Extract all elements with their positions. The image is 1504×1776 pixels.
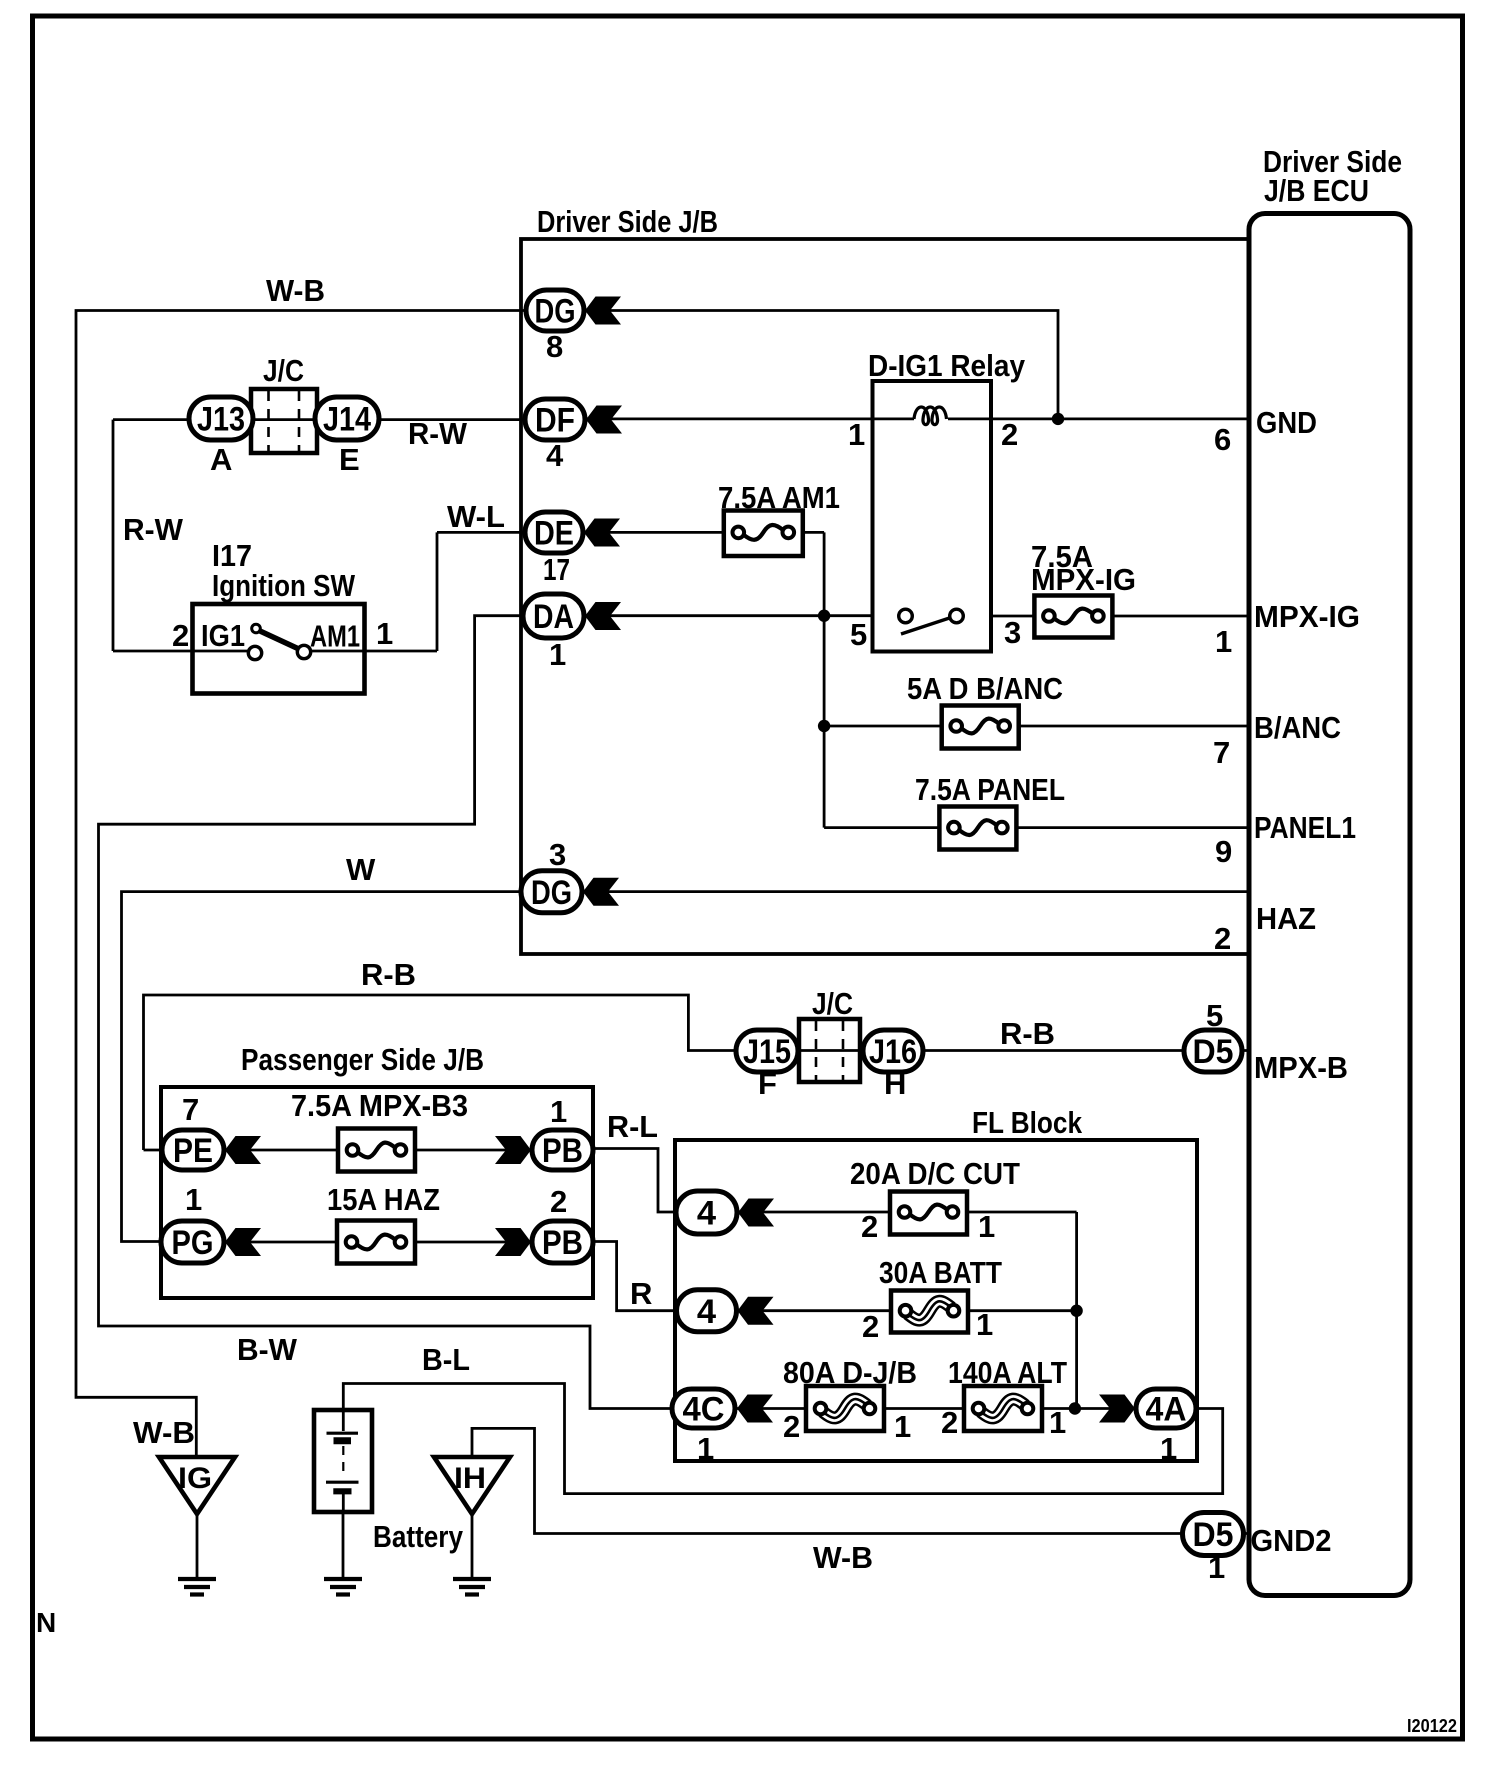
svg-text:7: 7 xyxy=(1213,735,1230,770)
wire PE to fuse MPX-B3 to PB1 xyxy=(224,1149,531,1152)
svg-text:5: 5 xyxy=(850,617,867,652)
svg-text:2: 2 xyxy=(861,1209,878,1244)
fuse 30A BATT xyxy=(891,1291,968,1333)
battery symbol xyxy=(314,1410,372,1512)
wire ignition AM1 terminal to W-L corner xyxy=(310,650,437,653)
wire R-B from PE rail to J15 xyxy=(144,995,737,1150)
fuse 7.5A MPX-IG xyxy=(1034,596,1112,638)
FL Block box xyxy=(675,1140,1197,1461)
fuse 7.5A PANEL xyxy=(939,807,1016,850)
svg-text:1: 1 xyxy=(1215,624,1232,659)
wire IH to D5 GND2 xyxy=(472,1428,1249,1533)
wire R-W from J13 through J14 to DF xyxy=(113,418,525,421)
arrow into PB upper xyxy=(495,1136,531,1164)
svg-text:4: 4 xyxy=(697,1293,716,1331)
svg-text:IG: IG xyxy=(178,1462,212,1495)
junction node ALT rail xyxy=(1069,1402,1081,1414)
svg-text:2: 2 xyxy=(783,1409,800,1444)
svg-text:IH: IH xyxy=(454,1462,486,1495)
wire W from DG lower to passenger PG rail xyxy=(122,892,523,1242)
arrow into DE xyxy=(584,519,620,547)
svg-text:FL Block: FL Block xyxy=(972,1105,1083,1140)
ground symbol under IH xyxy=(453,1579,491,1595)
arrow into DG xyxy=(585,297,621,325)
ignition switch lever and contacts xyxy=(248,624,310,660)
svg-text:W-B: W-B xyxy=(266,273,325,308)
wire PG to fuse HAZ to PB2 xyxy=(224,1241,531,1244)
svg-text:W-B: W-B xyxy=(813,1540,873,1575)
ground symbol under IG xyxy=(178,1579,216,1595)
svg-text:GND: GND xyxy=(1256,405,1317,440)
svg-text:PB: PB xyxy=(542,1132,583,1170)
svg-text:J13: J13 xyxy=(197,401,245,439)
connector DF pin 4 xyxy=(525,399,585,440)
svg-text:2: 2 xyxy=(941,1405,958,1440)
connector J13 pin A xyxy=(189,397,253,440)
wire IG triangle to ground xyxy=(196,1514,199,1578)
svg-text:D5: D5 xyxy=(1193,1516,1234,1554)
wire B-L from 4A to battery positive xyxy=(343,1384,1222,1494)
wire W-L from ignition AM1 up to DE xyxy=(437,532,525,651)
svg-text:PE: PE xyxy=(173,1132,213,1170)
svg-text:R-W: R-W xyxy=(123,512,184,547)
connector J15 pin F xyxy=(736,1030,798,1072)
svg-text:PG: PG xyxy=(172,1224,214,1262)
relay coil of D-IG1 xyxy=(914,407,947,425)
wire J16 to D5 MPX-B xyxy=(798,1049,1249,1052)
svg-text:R-W: R-W xyxy=(408,416,468,451)
svg-text:4A: 4A xyxy=(1146,1391,1187,1429)
svg-text:2: 2 xyxy=(1001,417,1018,452)
svg-text:5A D B/ANC: 5A D B/ANC xyxy=(907,671,1063,706)
svg-text:D-IG1 Relay: D-IG1 Relay xyxy=(868,348,1026,383)
ground triangle IG xyxy=(159,1457,235,1514)
arrow into DG lower xyxy=(583,878,619,906)
svg-text:B/ANC: B/ANC xyxy=(1254,710,1341,745)
svg-text:W: W xyxy=(346,852,376,887)
svg-text:1: 1 xyxy=(848,417,865,452)
connector PB upper pin 1 xyxy=(532,1130,593,1170)
svg-text:30A BATT: 30A BATT xyxy=(879,1255,1002,1290)
fuse 15A HAZ xyxy=(337,1221,415,1264)
connector DG pin 8 xyxy=(526,290,584,331)
svg-text:B-W: B-W xyxy=(237,1332,298,1367)
Driver Side J/B block xyxy=(521,239,1249,954)
svg-text:W-L: W-L xyxy=(447,499,505,534)
wire relay coil pin 2 to ECU GND pin 6 xyxy=(948,417,1249,420)
connector DE pin 17 xyxy=(525,512,583,553)
svg-text:E: E xyxy=(339,442,360,477)
svg-text:9: 9 xyxy=(1215,834,1232,869)
connector PG pin 1 xyxy=(161,1221,224,1263)
connector PB lower pin 2 xyxy=(532,1221,593,1263)
junction node on B/ANC wire rail xyxy=(818,720,830,732)
wire from DG arrow to GND net junction xyxy=(584,311,1058,419)
fuse 5A D B/ANC xyxy=(942,706,1019,749)
svg-text:3: 3 xyxy=(549,837,566,872)
svg-text:20A D/C CUT: 20A D/C CUT xyxy=(850,1156,1020,1191)
svg-text:1: 1 xyxy=(549,637,566,672)
svg-text:GND2: GND2 xyxy=(1251,1523,1332,1558)
connector DG lower pin 3 xyxy=(521,871,582,913)
svg-text:6: 6 xyxy=(1214,422,1231,457)
wire R from PB2 to FL block pin 4 lower xyxy=(593,1242,679,1311)
svg-text:1: 1 xyxy=(1208,1550,1225,1585)
svg-text:J/C: J/C xyxy=(812,986,853,1021)
svg-text:1: 1 xyxy=(894,1409,911,1444)
wire DF to D-IG1 relay coil pin 1 xyxy=(586,417,914,420)
svg-text:DG: DG xyxy=(531,874,572,912)
junction node BATT rail xyxy=(1070,1305,1082,1317)
svg-text:DG: DG xyxy=(535,293,576,331)
arrow into 4 lower xyxy=(738,1297,774,1325)
svg-text:R-L: R-L xyxy=(607,1109,658,1144)
ground triangle IH xyxy=(434,1457,510,1514)
svg-text:A: A xyxy=(210,442,232,477)
svg-text:DE: DE xyxy=(534,515,574,553)
connector D5 MPX-B pin 5 xyxy=(1184,1030,1242,1072)
svg-text:AM1: AM1 xyxy=(310,619,360,654)
svg-text:80A D-J/B: 80A D-J/B xyxy=(783,1355,917,1390)
fuse 7.5A MPX-B3 xyxy=(338,1129,415,1172)
svg-text:1: 1 xyxy=(1049,1405,1066,1440)
svg-text:IG1: IG1 xyxy=(201,618,245,653)
svg-text:3: 3 xyxy=(1004,615,1021,650)
arrow into 4C xyxy=(737,1395,773,1423)
svg-text:I20122: I20122 xyxy=(1407,1715,1457,1736)
svg-text:DF: DF xyxy=(535,402,575,440)
svg-text:4: 4 xyxy=(546,438,564,473)
relay D-IG1 box xyxy=(873,381,992,652)
svg-text:Ignition SW: Ignition SW xyxy=(212,568,356,603)
connector DA pin 1 xyxy=(523,594,584,638)
svg-text:2: 2 xyxy=(1214,921,1231,956)
svg-text:J/C: J/C xyxy=(263,353,304,388)
svg-text:HAZ: HAZ xyxy=(1256,901,1316,936)
wire into ignition IG1 terminal xyxy=(113,650,249,653)
svg-text:W-B: W-B xyxy=(133,1415,195,1450)
svg-text:15A HAZ: 15A HAZ xyxy=(327,1182,440,1217)
svg-text:PANEL1: PANEL1 xyxy=(1254,810,1356,845)
svg-text:7: 7 xyxy=(182,1092,199,1127)
connector D5 GND2 pin 1 xyxy=(1183,1513,1244,1556)
svg-text:7.5A PANEL: 7.5A PANEL xyxy=(915,772,1065,807)
svg-text:DA: DA xyxy=(533,598,574,636)
arrow into PG xyxy=(225,1228,261,1256)
svg-text:5: 5 xyxy=(1206,998,1223,1033)
junction node on DA wire rail xyxy=(818,610,830,622)
wire rail to fuse D B/ANC to ECU pin 7 xyxy=(824,725,1249,728)
svg-text:2: 2 xyxy=(862,1309,879,1344)
wire DE to fuse AM1 and down-rail xyxy=(584,532,824,827)
svg-text:1: 1 xyxy=(376,616,393,651)
svg-text:1: 1 xyxy=(550,1094,567,1129)
svg-text:140A ALT: 140A ALT xyxy=(948,1355,1067,1390)
connector 4A pin 1 xyxy=(1136,1389,1196,1429)
connector J14 pin E xyxy=(315,397,379,440)
ground symbol under battery xyxy=(324,1579,362,1595)
svg-text:17: 17 xyxy=(543,552,570,587)
svg-text:7.5A AM1: 7.5A AM1 xyxy=(718,480,840,515)
wire R-W vertical J13 to ignition switch xyxy=(112,420,115,651)
relay switch contacts of D-IG1 xyxy=(899,609,964,634)
svg-text:R-B: R-B xyxy=(1000,1016,1055,1051)
wire 4C through fuses D-J/B and ALT to 4A xyxy=(736,1407,1135,1410)
svg-text:1: 1 xyxy=(976,1307,993,1342)
wire IH triangle to ground xyxy=(471,1514,474,1578)
arrow into PB lower xyxy=(495,1228,531,1256)
svg-text:MPX-IG: MPX-IG xyxy=(1031,562,1136,597)
arrow into 4A xyxy=(1099,1395,1135,1423)
wire DA left to lower-left rail (B-W run) xyxy=(99,616,673,1409)
connector PE pin 7 xyxy=(162,1130,224,1170)
fuse 80A D-J/B xyxy=(806,1386,884,1431)
svg-text:1: 1 xyxy=(978,1209,995,1244)
wire relay pin 3 to fuse MPX-IG to ECU pin 1 xyxy=(991,615,1249,618)
svg-text:2: 2 xyxy=(172,618,189,653)
connector 4 upper xyxy=(676,1191,737,1234)
svg-text:Battery: Battery xyxy=(373,1519,464,1554)
fuse 140A ALT xyxy=(964,1386,1042,1431)
wire DA arrow to relay switch pin 5 xyxy=(585,614,873,617)
svg-text:PB: PB xyxy=(542,1224,583,1262)
arrow into 4 upper xyxy=(738,1199,774,1227)
svg-text:4C: 4C xyxy=(683,1391,725,1429)
wire W-B from DG connector to left rail xyxy=(76,311,527,1458)
svg-text:7.5A MPX-B3: 7.5A MPX-B3 xyxy=(291,1088,468,1123)
wire pin 4 upper to fuse D/C CUT to right rail xyxy=(737,1212,1077,1409)
junction connector J/C (upper) xyxy=(251,389,317,453)
svg-text:Driver Side J/B: Driver Side J/B xyxy=(537,204,718,239)
arrow into DA xyxy=(585,602,621,630)
svg-text:R: R xyxy=(630,1276,652,1311)
svg-text:Passenger Side J/B: Passenger Side J/B xyxy=(241,1042,484,1077)
svg-text:J14: J14 xyxy=(323,401,371,439)
svg-text:4: 4 xyxy=(697,1195,716,1233)
svg-text:8: 8 xyxy=(546,329,563,364)
svg-text:1: 1 xyxy=(697,1431,714,1466)
junction node on GND wire xyxy=(1052,413,1064,425)
svg-text:R-B: R-B xyxy=(361,957,416,992)
svg-text:J/B ECU: J/B ECU xyxy=(1264,173,1369,208)
wire battery negative to ground xyxy=(342,1512,345,1578)
connector 4 lower xyxy=(677,1290,737,1332)
arrow into DF xyxy=(586,406,622,434)
wire rail to fuse PANEL to ECU pin 9 xyxy=(824,826,1249,829)
svg-text:N: N xyxy=(36,1607,56,1638)
ignition switch I17 box xyxy=(193,604,365,694)
wire pin 4 lower to fuse BATT to right rail xyxy=(737,1309,1077,1312)
connector 4C pin 1 xyxy=(672,1389,735,1429)
svg-text:MPX-B: MPX-B xyxy=(1254,1050,1348,1085)
svg-text:B-L: B-L xyxy=(422,1342,470,1377)
svg-text:1: 1 xyxy=(1160,1431,1177,1466)
arrow into PE xyxy=(225,1136,261,1164)
svg-text:F: F xyxy=(758,1066,777,1101)
svg-text:2: 2 xyxy=(550,1184,567,1219)
Passenger Side J/B block xyxy=(161,1087,593,1298)
wire DG lower arrow to ECU HAZ pin 2 xyxy=(582,890,1249,893)
svg-text:MPX-IG: MPX-IG xyxy=(1254,599,1360,634)
svg-text:1: 1 xyxy=(185,1182,202,1217)
Driver Side J/B ECU block xyxy=(1249,214,1410,1596)
svg-text:H: H xyxy=(884,1066,906,1101)
connector J16 pin H xyxy=(863,1030,923,1072)
junction connector J/C (lower) xyxy=(799,1019,860,1082)
svg-text:D5: D5 xyxy=(1193,1033,1234,1071)
wire R-L from PB1 to FL block pin 4 upper xyxy=(593,1149,679,1213)
fuse 7.5A AM1 xyxy=(724,511,803,557)
fuse 20A D/C CUT xyxy=(890,1192,967,1235)
